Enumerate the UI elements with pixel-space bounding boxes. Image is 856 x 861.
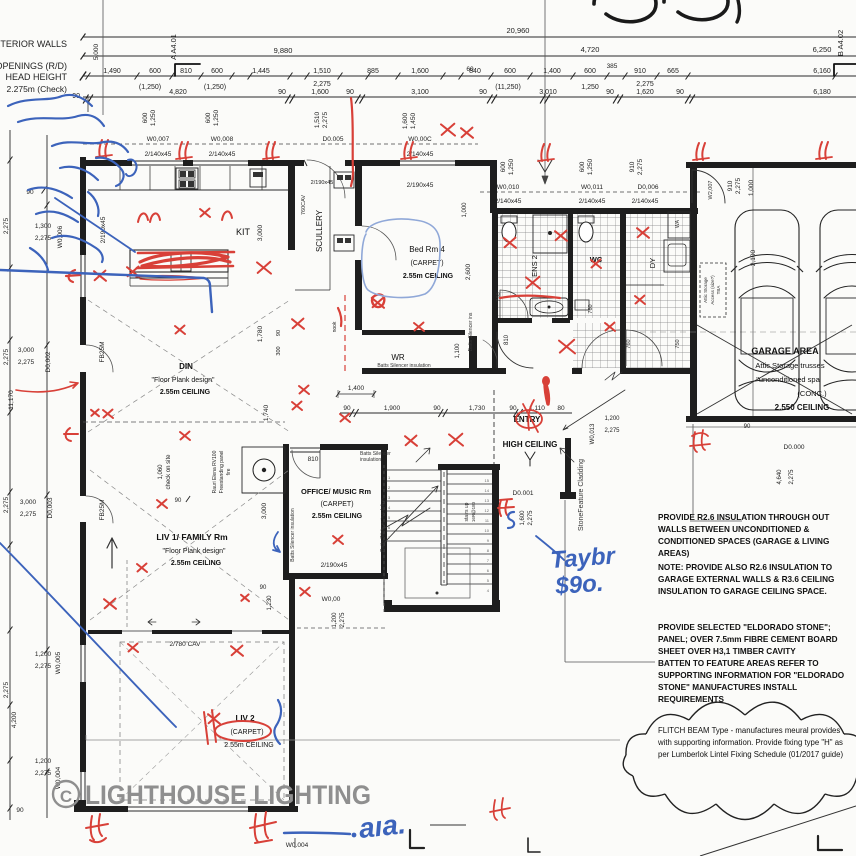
svg-text:1,250: 1,250: [213, 109, 220, 126]
svg-text:2,275: 2,275: [637, 158, 644, 175]
svg-text:D0.005: D0.005: [323, 136, 344, 143]
svg-text:D0.000: D0.000: [784, 444, 805, 451]
svg-text:StoneFeature Cladding: StoneFeature Cladding: [578, 459, 585, 531]
svg-text:1,200: 1,200: [35, 758, 52, 765]
svg-text:OPENINGS (R/D): OPENINGS (R/D): [0, 61, 67, 71]
svg-text:3,100: 3,100: [411, 89, 429, 96]
svg-text:LIV 1/ FAMILY Rm: LIV 1/ FAMILY Rm: [156, 532, 228, 542]
svg-text:1,400: 1,400: [543, 68, 561, 75]
svg-text:2/190x45: 2/190x45: [321, 562, 348, 569]
svg-text:1,200: 1,200: [35, 651, 52, 658]
svg-text:90: 90: [343, 405, 351, 412]
svg-text:2/140x45: 2/140x45: [579, 198, 606, 205]
svg-text:2/140x45: 2/140x45: [632, 198, 659, 205]
svg-text:WA: WA: [675, 219, 681, 228]
svg-text:90: 90: [260, 585, 267, 591]
svg-text:(11,250): (11,250): [495, 84, 521, 91]
svg-text:SHEET OVER H3,1 TIMBER CAVITY: SHEET OVER H3,1 TIMBER CAVITY: [658, 647, 796, 656]
svg-text:KIT: KIT: [236, 227, 251, 237]
svg-text:1,445: 1,445: [252, 68, 270, 75]
svg-text:5,000: 5,000: [93, 43, 100, 60]
svg-text:(CARPET): (CARPET): [320, 501, 353, 508]
svg-text:2.55m CEILING: 2.55m CEILING: [160, 389, 211, 396]
svg-text:stairs up: stairs up: [464, 502, 470, 521]
svg-text:2.275m (Check): 2.275m (Check): [7, 84, 68, 94]
svg-text:NOTE: PROVIDE ALSO R2.6 INSULA: NOTE: PROVIDE ALSO R2.6 INSULATION TO: [658, 563, 833, 572]
svg-text:DIN: DIN: [179, 362, 193, 371]
svg-text:3,000: 3,000: [261, 502, 268, 519]
svg-text:1,250: 1,250: [508, 158, 515, 175]
svg-text:810: 810: [180, 68, 192, 75]
svg-text:$9o.: $9o.: [554, 570, 605, 600]
svg-text:Access (size?): Access (size?): [710, 275, 715, 305]
svg-text:1,230: 1,230: [267, 595, 273, 611]
svg-text:3,000: 3,000: [18, 347, 35, 354]
svg-text:4,640: 4,640: [777, 469, 783, 485]
svg-text:2.55m CEILING: 2.55m CEILING: [224, 742, 273, 749]
svg-text:1,000: 1,000: [748, 179, 755, 196]
svg-text:6,180: 6,180: [813, 89, 831, 96]
svg-text:1,900: 1,900: [384, 405, 401, 412]
svg-text:2.55m CEILING: 2.55m CEILING: [403, 273, 454, 280]
svg-text:1,200: 1,200: [604, 416, 620, 422]
svg-text:11,170: 11,170: [8, 390, 15, 410]
svg-text:2/190x45: 2/190x45: [407, 182, 434, 189]
svg-text:1,600: 1,600: [520, 510, 526, 526]
svg-text:90: 90: [606, 89, 614, 96]
svg-text:2,275: 2,275: [3, 496, 10, 513]
svg-text:2,275: 2,275: [313, 81, 331, 88]
svg-text:AREAS): AREAS): [658, 549, 690, 558]
svg-text:90: 90: [744, 424, 751, 430]
svg-text:W0,008: W0,008: [211, 136, 234, 143]
svg-text:6,250: 6,250: [813, 45, 832, 54]
svg-text:910: 910: [629, 161, 636, 172]
svg-text:760CAV: 760CAV: [301, 195, 307, 215]
svg-text:760: 760: [626, 339, 632, 348]
svg-text:1,200: 1,200: [332, 612, 338, 628]
svg-text:W0,011: W0,011: [581, 184, 603, 191]
svg-text:600: 600: [142, 112, 149, 123]
svg-text:16R@180: 16R@180: [471, 501, 476, 522]
svg-text:910: 910: [727, 180, 734, 191]
svg-text:Rauri Elena RV100: Rauri Elena RV100: [212, 450, 218, 493]
svg-text:aıa.: aıa.: [357, 808, 407, 844]
svg-text:B A4.02: B A4.02: [836, 30, 845, 56]
svg-text:Batts Silencer insulation: Batts Silencer insulation: [290, 508, 296, 562]
svg-text:"Floor Plank design": "Floor Plank design": [163, 548, 226, 555]
svg-text:2,275: 2,275: [3, 348, 10, 365]
svg-text:90: 90: [676, 89, 684, 96]
svg-text:STONE" MANUFACTURES INSTALL: STONE" MANUFACTURES INSTALL: [658, 683, 797, 692]
svg-text:1,620: 1,620: [636, 89, 654, 96]
svg-text:(1,250): (1,250): [139, 84, 161, 91]
svg-text:3,000: 3,000: [20, 499, 37, 506]
svg-text:FB25M: FB25M: [99, 342, 106, 363]
svg-text:OFFICE/ MUSIC Rm: OFFICE/ MUSIC Rm: [301, 487, 371, 496]
svg-text:SUPPORTING INFORMATION FOR "EL: SUPPORTING INFORMATION FOR "ELDORADO: [658, 671, 845, 680]
svg-text:FLITCH BEAM Type - manufacture: FLITCH BEAM Type - manufactures meural p…: [658, 726, 840, 735]
svg-text:600: 600: [205, 112, 212, 123]
svg-text:810: 810: [308, 456, 319, 463]
svg-text:1,600: 1,600: [411, 68, 429, 75]
svg-text:1,250: 1,250: [587, 158, 594, 175]
svg-text:15: 15: [485, 478, 490, 483]
svg-text:3,000: 3,000: [257, 224, 264, 241]
svg-text:WR: WR: [391, 353, 405, 362]
svg-text:LIGHTHOUSE LIGHTING: LIGHTHOUSE LIGHTING: [85, 780, 371, 810]
svg-text:1,780: 1,780: [257, 325, 264, 342]
svg-text:2/780 CAV: 2/780 CAV: [170, 641, 202, 648]
svg-text:PANEL; OVER 7.5mm FIBRE CEMENT: PANEL; OVER 7.5mm FIBRE CEMENT BOARD: [658, 635, 838, 644]
svg-text:1,510: 1,510: [314, 111, 321, 128]
svg-text:ENS 2: ENS 2: [530, 255, 539, 277]
svg-text:fire: fire: [226, 468, 232, 475]
svg-text:1,450: 1,450: [410, 112, 417, 129]
svg-text:1,740: 1,740: [263, 404, 270, 421]
svg-text:20,960: 20,960: [507, 26, 530, 35]
svg-text:WALLS BETWEEN UNCONDITIONED &: WALLS BETWEEN UNCONDITIONED &: [658, 525, 810, 534]
svg-text:(CARPET): (CARPET): [230, 729, 263, 736]
svg-text:with supporting information. P: with supporting information. Provide fix…: [657, 738, 843, 747]
svg-text:1,000: 1,000: [462, 202, 468, 218]
svg-text:Batts Silencer insulation: Batts Silencer insulation: [377, 363, 431, 369]
svg-text:2/140x45: 2/140x45: [145, 151, 172, 158]
svg-text:6,160: 6,160: [813, 68, 831, 75]
svg-text:80: 80: [557, 405, 565, 412]
svg-text:2,600: 2,600: [465, 263, 472, 280]
svg-text:2.55m CEILING: 2.55m CEILING: [312, 513, 363, 520]
svg-text:600: 600: [500, 161, 507, 172]
svg-text:1,400: 1,400: [348, 385, 365, 392]
svg-text:1,600: 1,600: [311, 89, 329, 96]
svg-text:90: 90: [276, 330, 282, 336]
svg-text:12: 12: [485, 508, 490, 513]
svg-text:2,275: 2,275: [3, 217, 10, 234]
svg-text:600: 600: [211, 68, 223, 75]
svg-text:GARAGE AREA: GARAGE AREA: [751, 346, 819, 356]
svg-text:Attic Storage: Attic Storage: [703, 277, 708, 303]
svg-text:Attic Storage trusses: Attic Storage trusses: [755, 361, 824, 370]
svg-text:BATTEN TO FEATURE AREAS REFER: BATTEN TO FEATURE AREAS REFER TO: [658, 659, 819, 668]
svg-text:Taybr: Taybr: [550, 542, 618, 574]
svg-text:(CONC.): (CONC.): [797, 389, 827, 398]
svg-text:90: 90: [346, 89, 354, 96]
svg-text:D0,002: D0,002: [45, 351, 52, 372]
svg-text:600: 600: [584, 68, 596, 75]
svg-text:GARAGE EXTERNAL WALLS & R3.6 C: GARAGE EXTERNAL WALLS & R3.6 CEILING: [658, 575, 834, 584]
svg-text:SCULLERY: SCULLERY: [315, 209, 324, 252]
svg-text:840: 840: [469, 68, 481, 75]
svg-text:nook: nook: [332, 321, 338, 332]
svg-text:300: 300: [276, 346, 282, 355]
svg-text:2,275: 2,275: [3, 681, 10, 698]
svg-text:2,275: 2,275: [322, 111, 329, 128]
svg-text:2,275: 2,275: [789, 469, 795, 485]
svg-text:90: 90: [16, 807, 24, 814]
svg-text:PROVIDE SELECTED "ELDORADO STO: PROVIDE SELECTED "ELDORADO STONE";: [658, 623, 831, 632]
svg-text:600: 600: [504, 68, 516, 75]
svg-text:1,600: 1,600: [402, 112, 409, 129]
svg-text:4,200: 4,200: [11, 711, 18, 728]
svg-text:2,275: 2,275: [735, 177, 742, 194]
svg-text:2.55m CEILING: 2.55m CEILING: [171, 560, 222, 567]
svg-text:Freestanding panel: Freestanding panel: [219, 451, 225, 494]
svg-text:760: 760: [588, 304, 594, 313]
svg-text:"Floor Plank design": "Floor Plank design": [152, 377, 215, 384]
svg-text:1,730: 1,730: [469, 405, 486, 412]
svg-text:PROVIDE R2.6 INSULATION THROUG: PROVIDE R2.6 INSULATION THROUGH OUT: [658, 513, 829, 522]
svg-text:W0,005: W0,005: [55, 651, 62, 674]
svg-text:90: 90: [509, 405, 517, 412]
svg-text:EXTERIOR WALLS: EXTERIOR WALLS: [0, 39, 67, 49]
svg-text:TBA: TBA: [716, 286, 721, 295]
svg-text:W0,00: W0,00: [322, 596, 341, 603]
svg-text:A A4.01: A A4.01: [169, 34, 178, 60]
svg-text:HIGH CEILING: HIGH CEILING: [503, 440, 558, 449]
svg-text:insulation: insulation: [360, 457, 381, 463]
svg-text:C: C: [60, 787, 72, 806]
svg-text:D0,006: D0,006: [638, 184, 659, 191]
svg-text:W0.004: W0.004: [286, 842, 309, 849]
svg-text:1,250: 1,250: [581, 84, 599, 91]
svg-text:DY: DY: [648, 258, 657, 268]
svg-text:910: 910: [634, 68, 646, 75]
svg-text:600: 600: [149, 68, 161, 75]
svg-text:D0,003: D0,003: [47, 497, 54, 518]
svg-text:2,275: 2,275: [340, 612, 346, 628]
svg-text:1,100: 1,100: [455, 343, 461, 359]
svg-text:600: 600: [579, 161, 586, 172]
svg-text:385: 385: [607, 63, 618, 70]
svg-text:10: 10: [485, 528, 490, 533]
svg-text:1,510: 1,510: [313, 68, 331, 75]
svg-text:2,275: 2,275: [528, 510, 534, 526]
svg-text:1,300: 1,300: [35, 223, 52, 230]
svg-text:1,250: 1,250: [150, 109, 157, 126]
svg-text:D0.001: D0.001: [513, 490, 534, 497]
svg-text:(1,250): (1,250): [204, 84, 226, 91]
svg-text:W0,013: W0,013: [590, 423, 596, 444]
svg-text:2,275: 2,275: [35, 770, 52, 777]
svg-text:2,275: 2,275: [35, 235, 52, 242]
svg-text:1,060: 1,060: [158, 464, 164, 480]
svg-text:per Lumberlok Lintel Fixing Sc: per Lumberlok Lintel Fixing Schedule (01…: [658, 750, 843, 759]
svg-text:2,275: 2,275: [20, 511, 37, 518]
svg-text:9,880: 9,880: [274, 46, 293, 55]
svg-text:2/140x45: 2/140x45: [209, 151, 236, 158]
svg-text:750: 750: [675, 339, 681, 348]
svg-text:Batts Silencer insulation: Batts Silencer insulation: [380, 498, 386, 552]
svg-text:90: 90: [433, 405, 441, 412]
svg-text:90: 90: [278, 89, 286, 96]
svg-text:2,275: 2,275: [35, 663, 52, 670]
svg-text:810: 810: [504, 334, 510, 345]
svg-text:2,275: 2,275: [636, 81, 654, 88]
svg-text:4,720: 4,720: [581, 45, 600, 54]
svg-text:90: 90: [175, 498, 182, 504]
svg-text:2.550 CEILING: 2.550 CEILING: [775, 403, 830, 412]
svg-text:W0,010: W0,010: [497, 184, 520, 191]
svg-text:4,820: 4,820: [169, 89, 187, 96]
svg-text:HEAD HEIGHT: HEAD HEIGHT: [5, 72, 67, 82]
svg-text:W0,007: W0,007: [147, 136, 170, 143]
svg-text:INSULATION TO GARAGE CEILING S: INSULATION TO GARAGE CEILING SPACE.: [658, 587, 827, 596]
svg-text:2,275: 2,275: [604, 428, 620, 434]
svg-text:Batts Silencer ins: Batts Silencer ins: [468, 312, 474, 351]
svg-text:14: 14: [485, 488, 490, 493]
svg-text:W0,00C: W0,00C: [408, 136, 432, 143]
svg-text:665: 665: [667, 68, 679, 75]
svg-text:13: 13: [485, 498, 490, 503]
svg-text:check on site: check on site: [166, 454, 172, 490]
svg-text:"unconditioned spa: "unconditioned spa: [756, 375, 820, 384]
svg-text:2/140x45: 2/140x45: [495, 198, 522, 205]
svg-text:90: 90: [479, 89, 487, 96]
svg-text:CONDITIONED SPACES (GARAGE & L: CONDITIONED SPACES (GARAGE & LIVING: [658, 537, 829, 546]
svg-text:1,490: 1,490: [103, 68, 121, 75]
svg-text:FB25M: FB25M: [99, 500, 106, 521]
svg-text:3,010: 3,010: [539, 89, 557, 96]
svg-text:W2,007: W2,007: [708, 181, 714, 200]
svg-text:2,275: 2,275: [18, 359, 35, 366]
